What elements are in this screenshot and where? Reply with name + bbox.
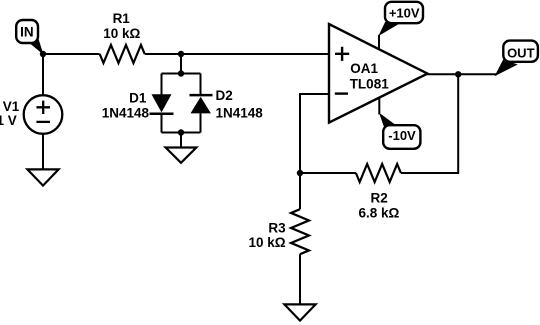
- svg-text:V1: V1: [3, 99, 20, 114]
- svg-text:D2: D2: [216, 88, 233, 103]
- svg-text:+10V: +10V: [389, 6, 420, 21]
- wire diode box to ground: [180, 133, 182, 148]
- node B (R1 right / diodes top): [178, 51, 184, 57]
- node D (diode box bottom): [178, 129, 184, 135]
- wire feedback right side: [401, 74, 458, 173]
- svg-text:R1: R1: [113, 11, 131, 26]
- wire left branch: [161, 74, 163, 133]
- svg-text:TL081: TL081: [350, 77, 390, 92]
- wire diode box bottom bar: [162, 132, 201, 134]
- svg-text:1 V: 1 V: [0, 113, 17, 128]
- ground (R3): [284, 304, 315, 320]
- wire node A to V1: [42, 54, 44, 95]
- ground (diodes): [166, 148, 197, 163]
- wire diode box top bar: [162, 73, 201, 75]
- node C (diode box top): [178, 70, 184, 76]
- wire V1 to ground: [42, 134, 44, 169]
- node E (output): [455, 71, 461, 77]
- pin V+ wire: [378, 35, 380, 50]
- pin V- wire: [378, 97, 380, 115]
- flag +10V: [378, 2, 423, 36]
- svg-text:OUT: OUT: [507, 45, 535, 60]
- wire input top row: [43, 53, 329, 55]
- wire R3 to ground: [299, 254, 301, 304]
- resistor R2: [356, 164, 401, 220]
- wire node F to R2: [300, 172, 356, 174]
- svg-text:D1: D1: [129, 90, 147, 105]
- svg-text:6.8 kΩ: 6.8 kΩ: [358, 205, 399, 220]
- svg-text:-10V: -10V: [388, 128, 416, 143]
- diode D1: [102, 90, 174, 120]
- resistor R1: [100, 11, 145, 63]
- node A (input): [40, 51, 46, 57]
- diode D2: [190, 88, 264, 120]
- flag IN: [16, 20, 43, 55]
- svg-text:1N4148: 1N4148: [216, 105, 264, 120]
- flag -10V: [379, 113, 421, 149]
- wire node F to R3: [299, 173, 301, 209]
- wire op-amp output: [427, 73, 497, 75]
- op-amp OA1: [329, 24, 428, 123]
- wire right branch: [200, 74, 202, 133]
- svg-text:1N4148: 1N4148: [102, 105, 150, 120]
- svg-text:10 kΩ: 10 kΩ: [103, 26, 140, 41]
- voltage source V1: [0, 95, 62, 134]
- svg-text:R2: R2: [370, 190, 387, 205]
- svg-text:OA1: OA1: [350, 61, 378, 76]
- wire node B down: [180, 54, 182, 74]
- ground (V1): [27, 169, 58, 185]
- wire inverting input: [300, 94, 329, 173]
- node F (feedback junction): [297, 170, 303, 176]
- flag OUT: [495, 41, 538, 77]
- resistor R3: [248, 209, 309, 254]
- svg-text:IN: IN: [20, 24, 34, 39]
- svg-text:R3: R3: [268, 220, 286, 235]
- svg-text:10 kΩ: 10 kΩ: [248, 235, 285, 250]
